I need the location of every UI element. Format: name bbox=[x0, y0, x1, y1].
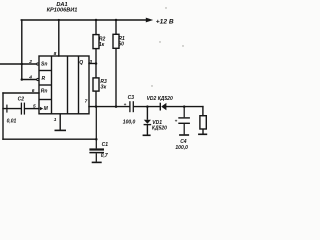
speck bbox=[165, 7, 166, 8]
svg-text:+: + bbox=[124, 102, 127, 107]
speck bbox=[159, 41, 160, 42]
speck bbox=[151, 85, 152, 86]
junction dot pin3-R2 bbox=[95, 62, 98, 65]
capacitor C4 bbox=[178, 107, 190, 135]
junction dot bottom rail C1 bbox=[95, 138, 98, 141]
svg-text:100,0: 100,0 bbox=[175, 145, 188, 151]
svg-text:1к: 1к bbox=[99, 42, 105, 48]
svg-text:C2: C2 bbox=[18, 97, 25, 103]
IC cell line under R bbox=[39, 84, 52, 86]
resistor R3 bbox=[93, 64, 99, 107]
svg-text:8: 8 bbox=[54, 51, 57, 57]
junction dot pin7-R3 bbox=[95, 105, 98, 108]
junction dot pin7-R1 bbox=[115, 105, 118, 108]
ground bar IC bbox=[55, 129, 67, 131]
wire VD2 to R4 corner bbox=[166, 106, 203, 108]
pin 4 inversion circle bbox=[37, 78, 39, 80]
svg-text:КР1006ВИ1: КР1006ВИ1 bbox=[47, 7, 78, 13]
wire pin 6 bbox=[3, 92, 39, 94]
capacitor C1 bbox=[89, 107, 104, 162]
wire pin 7 bbox=[89, 106, 129, 108]
junction dot VD1 bbox=[146, 105, 149, 108]
svg-text:4: 4 bbox=[28, 75, 32, 81]
junction dot C4 bbox=[183, 105, 186, 108]
svg-text:1: 1 bbox=[54, 117, 57, 123]
capacitor C3 bbox=[130, 101, 133, 112]
svg-text:6: 6 bbox=[32, 88, 35, 94]
wire pin 4 bbox=[22, 79, 37, 81]
wire bottom rail bbox=[3, 138, 96, 140]
svg-text:C3: C3 bbox=[128, 95, 135, 101]
pin 2 inversion circle bbox=[37, 63, 39, 65]
svg-text:7: 7 bbox=[85, 98, 88, 104]
pin 5 dynamic arrow bbox=[40, 107, 43, 110]
wire C3 to VD2 bbox=[134, 106, 160, 108]
IC ground stub pin 1 bbox=[59, 114, 61, 130]
svg-text:+12 В: +12 В bbox=[156, 19, 174, 26]
resistor R2 bbox=[93, 20, 99, 64]
speck bbox=[182, 45, 183, 46]
junction dot rail-pin8 bbox=[58, 19, 60, 21]
svg-text:Q: Q bbox=[79, 60, 83, 66]
svg-text:3: 3 bbox=[89, 59, 92, 65]
IC divider output column bbox=[78, 56, 80, 114]
svg-text:Sn: Sn bbox=[41, 62, 47, 68]
diode VD1 bbox=[146, 107, 148, 120]
svg-text:R: R bbox=[42, 76, 46, 82]
wire C2 to pin 5 bbox=[3, 108, 21, 110]
svg-text:+: + bbox=[175, 118, 178, 123]
ground bar R4 bbox=[198, 133, 207, 135]
svg-text:50: 50 bbox=[118, 42, 124, 48]
svg-text:Rn: Rn bbox=[41, 89, 48, 95]
svg-text:2: 2 bbox=[28, 59, 32, 65]
junction dot rail-R1 bbox=[115, 19, 118, 22]
svg-text:100,0: 100,0 bbox=[123, 119, 136, 125]
resistor R1 bbox=[113, 20, 119, 107]
capacitor C2 bbox=[7, 103, 25, 115]
resistor R4 bbox=[200, 116, 206, 134]
wire +12V top rail bbox=[21, 19, 147, 21]
IC cell line under Rn bbox=[39, 99, 52, 101]
ground bar C1 bbox=[92, 161, 102, 163]
+12V arrowhead bbox=[146, 18, 153, 23]
wire left drop to pins 2,4 bbox=[21, 20, 23, 80]
svg-text:Зк: Зк bbox=[100, 85, 106, 91]
svg-text:0,7: 0,7 bbox=[101, 153, 108, 159]
IC divider left column bbox=[51, 56, 53, 114]
ground bar VD1 bbox=[143, 134, 151, 136]
wire pin 8 riser bbox=[58, 20, 60, 56]
wire pin 3 bbox=[89, 63, 96, 65]
junction dot pin2 branch bbox=[21, 63, 24, 66]
IC cell line under Sn bbox=[39, 70, 52, 72]
diode VD2 bbox=[159, 103, 161, 111]
wire left rail bbox=[2, 93, 4, 139]
ground bar C4 bbox=[179, 134, 189, 136]
svg-text:0,01: 0,01 bbox=[7, 119, 17, 125]
svg-text:VD2 КД520: VD2 КД520 bbox=[147, 96, 173, 102]
junction dot rail-R2 bbox=[95, 19, 98, 22]
wire pin 2 input from left edge bbox=[0, 63, 37, 65]
op IC DA1 box bbox=[39, 56, 89, 114]
svg-text:5: 5 bbox=[33, 103, 36, 109]
svg-text:C1: C1 bbox=[102, 142, 109, 148]
junction dot pin4 branch bbox=[21, 78, 24, 81]
svg-text:КД520: КД520 bbox=[152, 125, 167, 131]
IC divider middle bbox=[67, 56, 69, 114]
